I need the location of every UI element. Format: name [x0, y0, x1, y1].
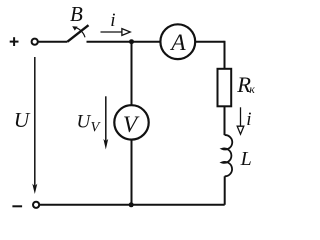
svg-text:i: i: [246, 109, 251, 130]
svg-text:U: U: [14, 108, 31, 132]
svg-text:A: A: [169, 30, 186, 56]
svg-text:к: к: [249, 82, 255, 96]
svg-text:B: B: [70, 2, 83, 26]
svg-text:U: U: [77, 111, 92, 132]
svg-text:i: i: [110, 10, 115, 31]
svg-text:L: L: [240, 148, 252, 170]
